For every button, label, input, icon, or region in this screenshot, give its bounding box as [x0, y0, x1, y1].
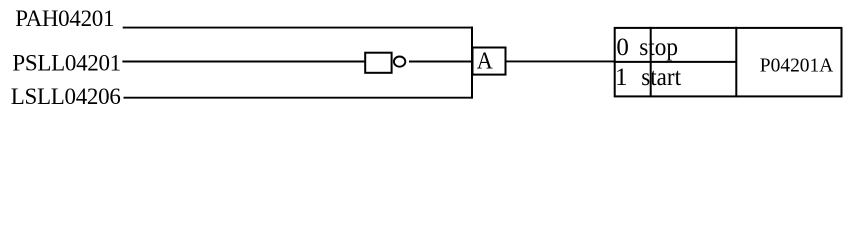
- table divider between value and action columns: [650, 27, 652, 97]
- logic table outer frame: [615, 28, 842, 97]
- svg-text:start: start: [641, 64, 681, 91]
- wire from PAH04201 to collector bus: [123, 27, 473, 29]
- svg-text:A: A: [477, 48, 494, 74]
- AND gate box: [473, 48, 506, 75]
- wire from gate A to logic table: [507, 60, 616, 62]
- input collector bus (vertical line into gate A): [471, 27, 473, 99]
- wire from PSLL04201 to inverter: [122, 61, 364, 63]
- wire from inverter bubble to gate A: [409, 61, 472, 63]
- svg-text:LSLL04206: LSLL04206: [11, 84, 121, 109]
- wire from LSLL04206 to collector bus: [124, 97, 474, 99]
- svg-text:stop: stop: [639, 34, 678, 61]
- inverter (NOT) box: [365, 53, 391, 73]
- table row divider: [614, 61, 737, 63]
- table divider between action column and output box: [735, 27, 737, 97]
- svg-text:1: 1: [615, 64, 628, 91]
- inverter output bubble: [394, 57, 405, 67]
- svg-text:PSLL04201: PSLL04201: [12, 50, 120, 75]
- svg-text:P04201A: P04201A: [760, 54, 834, 76]
- svg-text:0: 0: [616, 34, 629, 61]
- svg-text:PAH04201: PAH04201: [15, 6, 114, 31]
